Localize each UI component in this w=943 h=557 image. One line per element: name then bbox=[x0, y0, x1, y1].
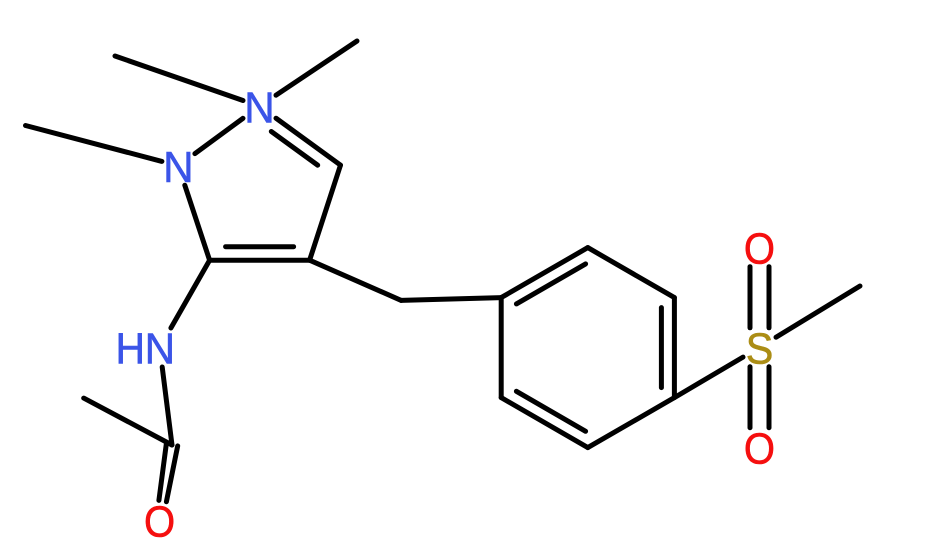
bond C=O line b bbox=[166, 446, 177, 502]
bond S-CH3 bbox=[776, 286, 860, 337]
ring bond C7'-C6' main bbox=[501, 398, 588, 448]
bond C4-CH2 bbox=[310, 260, 402, 300]
ring bond C3'-C2' inner bbox=[659, 308, 664, 388]
bond C4=C5 inner bbox=[226, 244, 294, 249]
bond S=O lower bbox=[767, 367, 772, 428]
svg-text:N: N bbox=[163, 143, 193, 192]
bond S=O lower bbox=[748, 367, 753, 428]
bond C4=C5 main bbox=[210, 258, 310, 263]
ring bond C5'-C4' inner bbox=[516, 264, 585, 304]
bond NH-C(=O) bbox=[162, 367, 172, 445]
svg-text:N: N bbox=[145, 325, 175, 374]
ring bond C2'-C7' bbox=[588, 398, 675, 448]
ring bond C7'-C6' inner bbox=[516, 391, 585, 431]
svg-text:H: H bbox=[115, 325, 145, 373]
bond phenyl-S bbox=[674, 357, 743, 398]
ring bond C6'-C5' bbox=[499, 298, 504, 398]
svg-text:O: O bbox=[744, 424, 775, 473]
bond S=O upper bbox=[767, 267, 772, 328]
bond N2=C3 main bbox=[276, 118, 341, 165]
ring bond C5'-C4' main bbox=[501, 248, 588, 298]
bond CH3a-N1 (N-methyl left) bbox=[26, 126, 162, 162]
bond C3-C4 bbox=[310, 165, 341, 260]
ring bond C4'-C3' bbox=[588, 248, 675, 298]
bond N2-CH3c (upper-right methyl) bbox=[276, 41, 357, 95]
svg-text:N: N bbox=[244, 84, 274, 133]
bond N2=C3 inner bbox=[271, 132, 317, 166]
bond N1-N2 bbox=[195, 118, 243, 153]
bond C(=O)-CH3 bbox=[84, 398, 172, 445]
bond C=O line a bbox=[159, 444, 166, 500]
svg-text:S: S bbox=[746, 325, 774, 373]
ring bond C3'-C2' main bbox=[672, 298, 677, 398]
bond S=O upper bbox=[748, 267, 753, 328]
bond CH2-phenyl C5' bbox=[401, 298, 501, 301]
bond C5-N1 bbox=[185, 185, 210, 260]
svg-text:O: O bbox=[144, 497, 175, 546]
bond CH3b-N2 (upper-left methyl) bbox=[115, 56, 243, 101]
svg-text:O: O bbox=[744, 224, 775, 273]
bond C5-NH bbox=[171, 260, 210, 328]
